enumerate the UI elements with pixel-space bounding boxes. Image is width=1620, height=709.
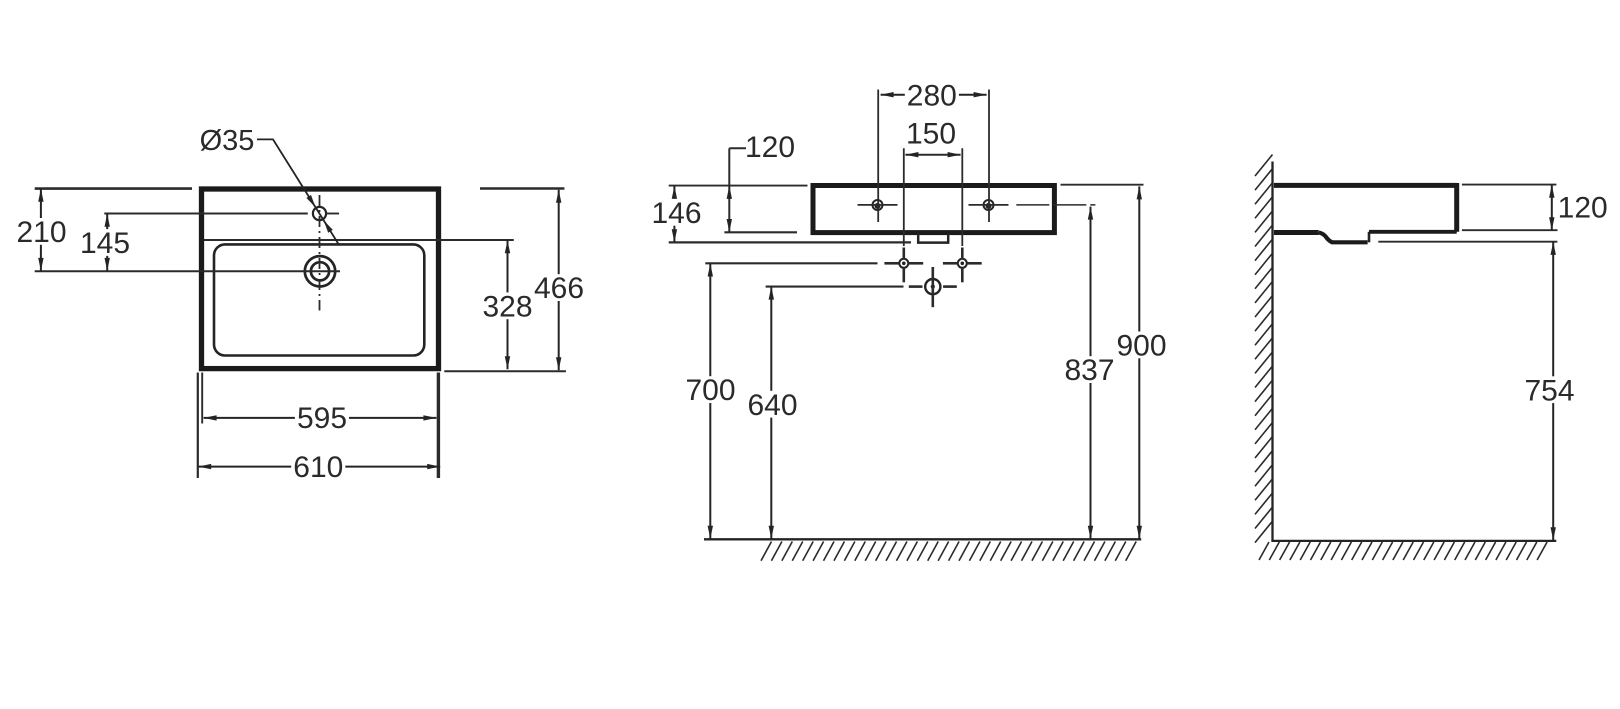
svg-text:Ø35: Ø35	[200, 125, 255, 157]
svg-text:328: 328	[482, 290, 532, 323]
svg-text:280: 280	[907, 80, 957, 113]
svg-text:900: 900	[1116, 330, 1166, 363]
svg-text:640: 640	[747, 389, 797, 422]
svg-text:145: 145	[80, 227, 130, 260]
svg-text:120: 120	[1558, 191, 1608, 224]
svg-text:120: 120	[745, 131, 795, 164]
svg-text:466: 466	[534, 272, 584, 305]
svg-text:146: 146	[651, 197, 701, 230]
svg-text:754: 754	[1524, 374, 1574, 407]
svg-text:700: 700	[685, 374, 735, 407]
svg-text:595: 595	[297, 402, 347, 435]
svg-text:610: 610	[293, 451, 343, 484]
svg-text:150: 150	[906, 117, 956, 150]
svg-text:210: 210	[16, 216, 66, 249]
svg-text:837: 837	[1064, 354, 1114, 387]
